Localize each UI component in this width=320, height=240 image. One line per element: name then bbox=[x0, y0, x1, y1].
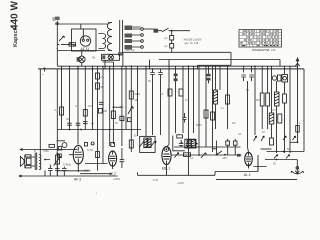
v wire 121.9 bbox=[121, 66, 123, 168]
transformer primary bbox=[107, 23, 112, 51]
choke winding bbox=[103, 34, 106, 49]
switch wire bbox=[158, 28, 190, 31]
node bbox=[171, 30, 173, 32]
svg-text:0,1: 0,1 bbox=[55, 109, 59, 112]
resistor 0.1 bbox=[60, 107, 64, 115]
v wire 206 bbox=[205, 66, 207, 147]
node bbox=[283, 151, 285, 153]
wire bbox=[230, 52, 232, 65]
resistor above bbox=[177, 135, 183, 138]
v wire 152.5 bbox=[152, 79, 154, 136]
switch bbox=[212, 141, 221, 156]
bottom line mid bbox=[138, 172, 216, 175]
terminal circles bbox=[141, 28, 144, 49]
grid row y147 bbox=[174, 146, 241, 148]
diode arrows row bbox=[274, 155, 290, 159]
resistor dark bbox=[237, 154, 241, 157]
node bbox=[109, 129, 111, 131]
bottom rail right bbox=[216, 178, 297, 180]
tube EBL1 top cap bbox=[164, 147, 168, 151]
v wire 193.5 bbox=[193, 66, 195, 133]
resistor h bbox=[184, 153, 191, 157]
secondary winding 3 bbox=[125, 39, 133, 43]
antenna bbox=[295, 57, 300, 69]
cap pair right2 bbox=[249, 66, 254, 81]
small box left2 bbox=[58, 154, 61, 157]
svg-text:RÖHRENTAB. u.S.: RÖHRENTAB. u.S. bbox=[252, 48, 276, 52]
resistor bbox=[260, 93, 264, 106]
dial lamp 2 bbox=[102, 54, 120, 68]
resistor bbox=[96, 73, 100, 79]
bus nodes bbox=[92, 65, 286, 69]
v wire 188.5 bbox=[188, 66, 190, 175]
v wire 220 bbox=[219, 66, 221, 90]
inter tube wire bbox=[85, 163, 108, 165]
return wire bbox=[123, 51, 231, 53]
diode arrow bbox=[254, 136, 257, 141]
v wire 97.5 grid ladder bbox=[97, 66, 99, 171]
resistor bbox=[83, 110, 87, 117]
v wire 271.5 bbox=[271, 66, 273, 138]
right boundary bbox=[303, 69, 305, 152]
capacitor box bbox=[233, 141, 237, 145]
v wire 175.5 bbox=[175, 66, 177, 133]
node bbox=[92, 123, 94, 125]
svg-text:7000: 7000 bbox=[43, 150, 49, 153]
bus lower bbox=[38, 68, 304, 70]
resistor bbox=[96, 83, 100, 89]
v wire 92.5 bbox=[92, 66, 94, 130]
resistor bbox=[204, 110, 208, 118]
wire left drop bbox=[56, 21, 58, 66]
caps stubs bbox=[50, 165, 64, 177]
coil A bbox=[144, 138, 147, 148]
svg-text:~: ~ bbox=[56, 47, 58, 51]
node bbox=[80, 129, 82, 131]
transformer core bbox=[120, 20, 123, 54]
bottom rails mid-left bbox=[58, 171, 112, 174]
node bbox=[77, 68, 79, 70]
svg-text:+225V: +225V bbox=[113, 178, 121, 181]
grid row y155 bbox=[172, 154, 242, 156]
circle comp bbox=[62, 143, 67, 148]
resistor bbox=[98, 109, 102, 114]
v wire 113.4 bbox=[112, 66, 114, 144]
resistor bbox=[211, 112, 215, 120]
diode arrow 2 bbox=[261, 136, 264, 141]
resistor bbox=[179, 89, 183, 96]
svg-text:0,5: 0,5 bbox=[272, 109, 276, 112]
capacitor box bbox=[278, 114, 282, 123]
cap plates bbox=[76, 123, 81, 125]
small coil antenna bbox=[296, 126, 300, 133]
svg-text:5000: 5000 bbox=[196, 124, 202, 127]
power box bbox=[72, 29, 97, 51]
v wire 199 bbox=[198, 66, 200, 155]
node bbox=[224, 154, 226, 156]
v wire 284.5 bbox=[284, 66, 286, 153]
small box bbox=[49, 144, 55, 147]
wire wrap bbox=[173, 136, 185, 151]
v wire 183 bbox=[182, 66, 184, 133]
resistor bbox=[168, 89, 172, 96]
coil D bbox=[191, 140, 195, 148]
v wire 61.5 bbox=[61, 66, 63, 130]
resistor bbox=[127, 118, 131, 122]
tube4 wrap bbox=[254, 155, 267, 172]
v wires res pair bbox=[262, 66, 267, 129]
h wire right 159.5 bbox=[265, 159, 297, 161]
node bbox=[69, 129, 71, 131]
svg-text:AF 3: AF 3 bbox=[74, 178, 81, 182]
rectifier tube AZ11 bbox=[80, 24, 90, 46]
IF transformer box1 bbox=[140, 136, 155, 152]
box with circle bbox=[282, 75, 288, 83]
resistor bbox=[270, 138, 274, 145]
v wire 146 bbox=[145, 66, 147, 136]
resistor bbox=[266, 93, 270, 106]
svg-text:μF: μF bbox=[165, 45, 168, 48]
coil B bbox=[148, 138, 151, 148]
svg-text:0,1: 0,1 bbox=[101, 76, 105, 79]
resistor bbox=[226, 95, 230, 104]
tube table bbox=[239, 30, 282, 48]
volume pot bbox=[54, 155, 62, 166]
node bbox=[196, 143, 198, 145]
bus upper bbox=[57, 65, 297, 67]
svg-text:2M: 2M bbox=[256, 99, 259, 102]
hf line bbox=[159, 59, 280, 61]
svg-text:μF: μF bbox=[165, 37, 168, 40]
svg-text:0,3: 0,3 bbox=[185, 99, 189, 102]
misc value labels bbox=[34, 80, 301, 160]
tube AF7 bbox=[109, 143, 117, 170]
svg-text:EBL1: EBL1 bbox=[162, 166, 170, 170]
v wire left boundary bbox=[56, 69, 58, 176]
v wire 137.5 bbox=[137, 66, 139, 136]
caps row bbox=[48, 169, 67, 171]
junction row y129.5 bbox=[57, 129, 141, 131]
v wire 85.3 bbox=[84, 66, 86, 130]
lamp drops bbox=[81, 51, 83, 66]
svg-text:0,1: 0,1 bbox=[221, 107, 225, 110]
cap pair mid bbox=[183, 113, 187, 123]
svg-text:0,1: 0,1 bbox=[190, 157, 194, 160]
svg-text:a.M.P.: a.M.P. bbox=[178, 182, 185, 185]
v wire 109.7 bbox=[109, 66, 111, 146]
resistor bbox=[129, 91, 133, 99]
svg-text:440 W: 440 W bbox=[10, 1, 21, 30]
v wire 160.5 bbox=[160, 79, 162, 136]
v wire 69.5 bbox=[69, 66, 71, 130]
mains plug bbox=[53, 17, 60, 25]
v wire 126 bbox=[125, 66, 127, 130]
v wire 212.5 bbox=[212, 66, 214, 152]
title Kapsch 440 W bbox=[10, 1, 21, 47]
small box left1 bbox=[58, 147, 61, 150]
v wire 103 bbox=[102, 66, 104, 164]
secondary winding 1 bbox=[125, 26, 133, 31]
v wire 169 top cap bbox=[167, 60, 170, 148]
wire spk top bbox=[20, 149, 78, 151]
antenna drop bbox=[297, 67, 299, 143]
svg-text:TONBL.: TONBL. bbox=[63, 164, 72, 167]
capacitor bbox=[120, 116, 124, 120]
svg-text:N.TR.: N.TR. bbox=[87, 149, 94, 152]
dropper resistors bbox=[170, 31, 174, 53]
resistor bbox=[283, 94, 287, 103]
arrow marks bbox=[283, 136, 296, 140]
v wire 215.5 coil bbox=[215, 66, 217, 90]
speaker wires bbox=[31, 157, 35, 166]
switch arrow bbox=[59, 36, 64, 41]
coil hatched mid bbox=[269, 113, 274, 124]
h wire right 153 bbox=[267, 151, 305, 153]
svg-text:250: 250 bbox=[223, 157, 228, 160]
coil C bbox=[187, 140, 191, 148]
node bbox=[181, 142, 183, 144]
v wire 255 bbox=[254, 66, 256, 135]
pot arrow 2 bbox=[201, 153, 206, 159]
capacitor box bbox=[226, 141, 230, 145]
small box comp bbox=[85, 143, 88, 147]
v wire 227.5 bbox=[227, 66, 229, 129]
tube AL4 bbox=[245, 152, 253, 168]
secondary winding 4 bbox=[125, 45, 133, 50]
dial lamp 1 bbox=[77, 56, 86, 63]
terminal leads bbox=[132, 27, 141, 47]
cap plates bbox=[207, 74, 211, 77]
resistor bbox=[129, 140, 133, 148]
output transformer bbox=[35, 153, 41, 171]
cap plates bbox=[83, 122, 88, 124]
svg-text:0,5: 0,5 bbox=[120, 106, 124, 109]
cap stack bbox=[174, 74, 178, 77]
connector block bbox=[154, 29, 159, 33]
wire under box bbox=[57, 50, 105, 52]
potentiometer arrow bbox=[128, 106, 133, 114]
bottom rail left bbox=[19, 175, 118, 177]
cap pair right bbox=[241, 66, 246, 81]
v wire 149.5 bbox=[149, 60, 151, 69]
fuse bbox=[57, 43, 75, 46]
tube AF3 bbox=[69, 145, 83, 172]
svg-text:gez. 21.1.38: gez. 21.1.38 bbox=[185, 42, 199, 45]
svg-text:220 110: 220 110 bbox=[126, 49, 135, 52]
bandfilter circle bbox=[272, 75, 281, 81]
secondary winding 2 bbox=[125, 34, 133, 38]
cap stubs bbox=[181, 140, 188, 147]
node + link bbox=[113, 106, 115, 108]
heater winding bbox=[118, 52, 123, 55]
svg-text:2M: 2M bbox=[104, 110, 107, 113]
svg-text:0,1: 0,1 bbox=[75, 105, 79, 108]
small circle comp bbox=[91, 142, 94, 145]
cap plates bbox=[67, 123, 72, 125]
svg-text:1W: 1W bbox=[88, 105, 92, 108]
pot arrow bbox=[175, 153, 179, 158]
v wire 276.5 bbox=[276, 81, 278, 153]
wire top bbox=[57, 23, 108, 25]
v wire far left bbox=[39, 69, 41, 155]
v wire 131.3 bbox=[130, 66, 132, 152]
svg-text:SK.: SK. bbox=[92, 57, 96, 60]
osc coil hatched bbox=[275, 92, 280, 106]
node phono bbox=[44, 68, 46, 70]
bottom line mid2 bbox=[215, 163, 258, 176]
svg-text:6,3V: 6,3V bbox=[153, 179, 158, 182]
cap pair bbox=[158, 69, 163, 79]
v wire 78 bbox=[77, 66, 79, 145]
v wire 290 bbox=[289, 66, 291, 153]
svg-text:AL 4: AL 4 bbox=[244, 173, 251, 177]
short link bbox=[261, 148, 272, 150]
cap marks bbox=[179, 144, 191, 146]
transformer bottom drop bbox=[45, 160, 50, 177]
ground anchor bbox=[291, 160, 303, 174]
trimmer arrows bbox=[139, 141, 156, 148]
tube EBL1 bbox=[162, 147, 171, 176]
IF transformer box2 bbox=[185, 139, 196, 148]
wire to tube4 bbox=[248, 81, 249, 153]
IF coil hatched bbox=[214, 90, 218, 104]
svg-text:1M: 1M bbox=[232, 122, 235, 125]
cap pair bbox=[150, 69, 155, 79]
speaker bbox=[20, 155, 31, 168]
svg-text:0,1: 0,1 bbox=[238, 133, 242, 136]
svg-text:0,1: 0,1 bbox=[160, 93, 164, 96]
resistor bbox=[111, 111, 115, 119]
